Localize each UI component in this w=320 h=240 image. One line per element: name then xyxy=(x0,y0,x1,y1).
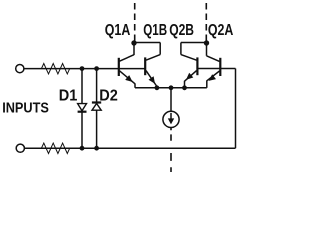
svg-text:D1: D1 xyxy=(59,87,78,105)
svg-text:D2: D2 xyxy=(99,87,118,105)
svg-text:Q1A: Q1A xyxy=(105,21,130,39)
svg-text:Q2A: Q2A xyxy=(208,21,233,39)
svg-text:Q1B: Q1B xyxy=(143,21,167,38)
svg-text:Q2B: Q2B xyxy=(169,20,194,38)
svg-text:INPUTS: INPUTS xyxy=(2,98,49,115)
